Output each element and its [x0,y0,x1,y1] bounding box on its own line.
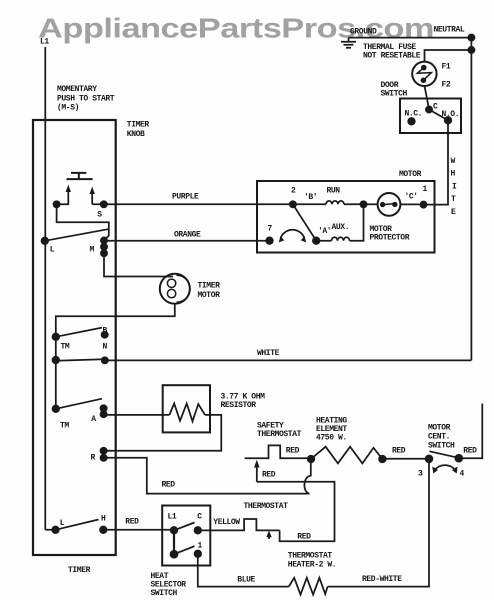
timer blade L to H [56,520,99,530]
svg-text:M: M [90,246,95,255]
svg-text:PURPLE: PURPLE [172,193,199,202]
wire A to resistor [104,413,170,416]
svg-text:7: 7 [268,225,273,234]
svg-text:KNOB: KNOB [127,130,145,139]
thermostat label [244,502,289,511]
svg-text:SWITCH: SWITCH [381,90,408,99]
wire heater to switch 3 (red-white) [328,459,429,587]
svg-text:WHITE: WHITE [257,349,280,358]
svg-text:SWITCH: SWITCH [151,589,178,598]
node motor terminal 1 [420,202,426,208]
svg-text:F2: F2 [442,81,451,90]
node TM upper [53,334,60,341]
node M terminals [101,237,107,256]
node motor 'A' [313,237,320,244]
safety thermostat label [257,422,302,440]
label F2 [442,81,451,90]
svg-text:BLUE: BLUE [237,576,255,585]
svg-text:'A': 'A' [318,227,331,236]
timer blade TM to N [56,359,104,361]
svg-text:RED-WHITE: RED-WHITE [362,575,402,584]
motor 'B' label [304,193,317,202]
wire orange (timer M to motor terminal 7) [104,240,270,242]
white label vertical [451,157,458,217]
node heating element right [379,456,386,463]
svg-text:1: 1 [198,542,203,551]
svg-text:L: L [50,246,55,255]
svg-text:THERMOSTAT: THERMOSTAT [257,430,302,439]
thermostat arrow [266,530,271,539]
heating element 4750 W [311,447,382,464]
thermal fuse F1 F2 [412,62,436,86]
ground label [350,28,377,37]
svg-text:AUX.: AUX. [332,223,350,232]
door switch C contact [426,106,432,112]
timer motor label [198,282,221,301]
red label (safety thermostat) [286,447,300,456]
neutral label [434,26,465,35]
svg-text:'C': 'C' [405,193,418,202]
terminal B label [103,327,108,336]
resistor label [221,393,266,411]
heat selector switch label [151,572,187,598]
motor cent switch blade [430,451,458,457]
door switch N.O. label [442,110,460,119]
svg-text:S: S [97,211,102,220]
door switch N.C. contact [408,118,415,125]
heat selector blade lower to 1 [174,546,195,554]
svg-text:N.C.: N.C. [405,110,423,119]
aux label [332,223,350,232]
door switch blade C to N.O. [429,110,448,121]
operating thermostat [198,519,280,530]
terminal TM upper label [61,343,70,352]
svg-text:L: L [60,519,65,528]
red label (arrow) [262,471,276,480]
wire junction to motor protector [364,203,379,205]
terminal S label [97,211,102,220]
svg-text:YELLOW: YELLOW [213,518,240,527]
door switch label [381,81,408,99]
node A terminals [101,405,107,417]
wire thermal fuse to neutral [425,50,472,62]
red-white label [362,575,402,584]
node neutral junction 1 [468,35,474,41]
heating element label [316,417,347,443]
run winding coil [293,201,364,204]
timer label [68,566,91,575]
terminal 4 label [460,470,465,479]
svg-text:A: A [91,415,96,424]
door switch N.C. label [405,110,423,119]
terminal L upper label [50,246,55,255]
node heat selector 1 [195,551,202,558]
wire heating element to switch 3 [382,458,429,460]
wire switch 4 red riser [459,404,483,459]
wire L1 feed (vertical from L1 down through timer box to lower L) [45,47,55,530]
svg-text:MOMENTARY: MOMENTARY [57,85,97,94]
node motor cent switch 3 [426,455,433,462]
momentary push to start label [57,85,115,113]
yellow label [213,518,240,527]
wire R to heating element (red) with hop [104,458,311,494]
terminal R label [91,454,96,463]
motor 'C' label [405,193,418,202]
svg-text:PROTECTOR: PROTECTOR [370,234,410,243]
safety thermostat [245,445,311,458]
terminal N label [103,343,108,352]
timer box [33,120,116,555]
svg-text:MOTOR: MOTOR [198,291,221,300]
thermal fuse label [363,43,421,61]
node heat selector L1 [171,527,178,534]
terminal TM lower label [60,422,69,431]
wire door switch N.O. down to motor terminal 1 [424,120,448,204]
node push-to-start right contact S [101,201,107,207]
svg-text:3: 3 [418,470,423,479]
red label (H wire) [125,518,139,527]
svg-text:HEATER-2 W.: HEATER-2 W. [288,561,336,570]
svg-text:THERMOSTAT: THERMOSTAT [288,552,333,561]
svg-text:NEUTRAL: NEUTRAL [434,26,465,35]
red label (heater right) [392,447,406,456]
wire white (timer N to neutral) [105,359,472,361]
heat selector 1 label [198,542,203,551]
svg-text:R: R [91,454,96,463]
svg-text:THERMOSTAT: THERMOSTAT [244,502,289,511]
door switch C label [433,103,438,112]
wire neutral top (ground symbol to neutral node) [349,37,472,39]
terminal M label [90,246,95,255]
node heating element left [308,456,315,463]
heat selector C label [197,513,202,522]
svg-text:(M-S): (M-S) [57,104,79,113]
wire neutral right side (down to white wire) [470,38,472,361]
svg-text:C: C [197,513,202,522]
svg-text:ORANGE: ORANGE [174,231,201,240]
motor terminal 7 label [268,225,273,234]
terminal 3 label [418,470,423,479]
svg-text:RED: RED [463,447,477,456]
svg-text:W: W [451,157,456,166]
timer blade L to M [45,229,108,241]
svg-text:SWITCH: SWITCH [428,442,455,451]
svg-text:L1: L1 [168,513,177,522]
red label (R wire) [162,481,176,490]
terminal H label [101,515,106,524]
svg-text:RED: RED [286,447,300,456]
wire heat selector L1 bus [173,530,175,554]
door switch N.O. contact [445,117,452,124]
wire M to timer motor [104,253,173,276]
push button arrow left [66,185,71,203]
wire resistor return to R [104,415,222,451]
node TM middle [53,357,60,364]
motor cent switch label [428,424,455,451]
push button actuator [67,173,93,179]
wire thermostat red loop [257,482,335,542]
svg-text:4: 4 [460,470,465,479]
timer knob label [127,121,150,140]
wire TM bus vertical [55,337,57,409]
motor box [257,181,435,253]
wire motor protector to terminal 1 [400,203,423,205]
resistor box [163,385,210,432]
node L lower [52,527,59,534]
heat selector switch box [162,506,210,566]
red label (switch 4) [463,447,477,456]
svg-text:RED: RED [297,533,311,542]
svg-text:TM: TM [60,422,69,431]
svg-text:TIMER: TIMER [68,566,91,575]
motor terminal 1 label [423,185,428,194]
ground [341,38,356,48]
run label [327,187,341,196]
wire purple (timer S to motor terminal 2) [104,203,293,205]
svg-text:GROUND: GROUND [350,28,377,37]
heat selector L1 label [168,513,177,522]
svg-text:RED: RED [125,518,139,527]
svg-text:MOTOR: MOTOR [399,170,422,179]
svg-text:I: I [452,182,457,191]
node motor terminal 7 [266,237,273,244]
wire thermal fuse to door switch C [425,86,430,109]
terminal L lower label [60,519,65,528]
node L1 label [40,38,49,47]
motor protector [378,193,401,216]
svg-text:T: T [451,195,456,204]
node TM lower [53,406,60,413]
svg-text:L1: L1 [40,38,49,47]
svg-text:CENT.: CENT. [428,433,450,442]
svg-text:RED: RED [262,471,276,480]
wire right contact to arrow [92,202,104,204]
node N [102,357,108,363]
thermostat heater 2W [289,578,328,595]
svg-text:F1: F1 [442,63,451,72]
svg-text:E: E [451,208,456,217]
resistor 3.77 K OHM [169,404,205,422]
aux winding coil [316,204,363,240]
node H [100,527,107,534]
wire left contact to arrow [57,202,69,204]
svg-text:2: 2 [291,187,296,196]
node run/aux junction [360,201,366,207]
timer motor [160,274,190,304]
node push-to-start left contact [54,201,60,207]
timer blade TM to B [56,328,102,337]
wire left contact down to M [57,204,109,240]
node neutral junction 2 [468,47,474,53]
white label [257,349,280,358]
push button arrow right [90,187,95,203]
motor 'A' label [318,227,331,236]
blue label [237,576,255,585]
terminal A label [91,415,96,424]
svg-text:H: H [451,170,456,179]
motor protector label [370,225,410,243]
svg-text:PUSH TO START: PUSH TO START [57,95,115,104]
node motor cent switch 4 [455,455,462,462]
motor cent switch arc [432,465,457,473]
svg-text:TM: TM [61,343,70,352]
red label (thermostat) [297,533,311,542]
svg-text:NOT RESETABLE: NOT RESETABLE [363,52,421,61]
svg-text:RESISTOR: RESISTOR [221,401,257,410]
wire H to heat selector L1 (red) [103,529,174,531]
motor centrifugal actuator arc [279,230,306,243]
orange label [174,231,201,240]
svg-text:RUN: RUN [327,187,341,196]
svg-text:RED: RED [162,481,176,490]
wire heat selector 1 to heater (blue) [198,554,289,587]
door switch box [400,99,461,134]
svg-text:TIMER: TIMER [198,282,221,291]
svg-text:4750 W.: 4750 W. [316,434,347,443]
purple label [172,193,199,202]
watermark AppliancePartsPros.com [38,13,434,44]
node R terminals [101,448,107,461]
node heat selector C [195,527,202,534]
node motor terminal 2 'B' [290,201,296,207]
svg-text:MOTOR: MOTOR [428,424,451,433]
timer blade TM to A [56,399,102,409]
heat selector blade L1 to C [174,523,195,531]
motor blade B to A [293,204,316,240]
node B [102,332,108,338]
wire timer motor return to TM [56,304,175,337]
svg-text:N: N [103,343,108,352]
motor terminal 2 label [291,187,296,196]
svg-text:C: C [433,103,438,112]
node L upper [42,238,49,245]
svg-text:RED: RED [392,447,406,456]
label F1 [442,63,451,72]
svg-text:'B': 'B' [304,193,317,202]
svg-text:H: H [101,515,106,524]
node heat selector lower left [171,551,178,558]
svg-text:1: 1 [423,185,428,194]
safety thermostat arrow [254,460,260,482]
svg-text:TIMER: TIMER [127,121,150,130]
thermostat heater label [288,552,336,570]
motor label [399,170,422,179]
